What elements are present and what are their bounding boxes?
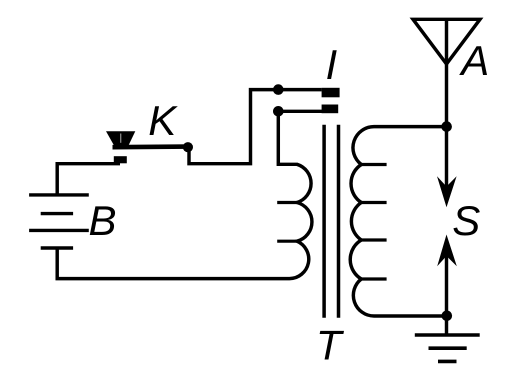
secondary winding tick 1: [361, 163, 386, 166]
node ground junction: [442, 311, 453, 322]
wire ground lead: [445, 316, 448, 335]
interrupter I upper contact bar: [322, 88, 340, 98]
svg-text:S: S: [452, 197, 480, 244]
primary winding tick 2: [277, 240, 297, 243]
node interrupter lower terminal: [273, 106, 284, 117]
antenna A: [413, 19, 480, 64]
secondary winding of transformer T: [350, 127, 447, 316]
svg-text:I: I: [326, 41, 338, 88]
key K knob: [106, 131, 135, 145]
transformer T core: [324, 125, 338, 318]
secondary winding tick 2: [361, 201, 386, 204]
ground: [415, 335, 480, 361]
wire key pivot to interrupter upper terminal: [189, 90, 322, 164]
primary winding of transformer T: [57, 111, 312, 278]
svg-text:A: A: [458, 37, 489, 84]
node interrupter upper terminal: [273, 84, 284, 95]
interrupter I lower contact bar: [322, 105, 339, 114]
secondary winding tick 3: [361, 238, 386, 241]
spark gap S lower electrode shaft: [445, 256, 448, 316]
svg-text:T: T: [316, 321, 345, 368]
node antenna junction: [441, 121, 452, 132]
spark gap S lower electrode arrowhead: [437, 235, 457, 267]
primary winding tick 1: [277, 201, 297, 204]
key K contact: [114, 156, 127, 163]
spark gap S upper electrode arrowhead: [437, 176, 457, 207]
wire antenna lead: [445, 19, 448, 190]
battery B: [29, 195, 89, 248]
key K lever: [113, 144, 189, 149]
svg-text:K: K: [148, 97, 178, 144]
wire interrupter lower contact line: [278, 110, 338, 113]
svg-text:B: B: [89, 197, 117, 244]
secondary winding tick 4: [361, 277, 386, 280]
node key pivot: [183, 142, 193, 152]
wire battery positive to key contact: [57, 164, 120, 195]
